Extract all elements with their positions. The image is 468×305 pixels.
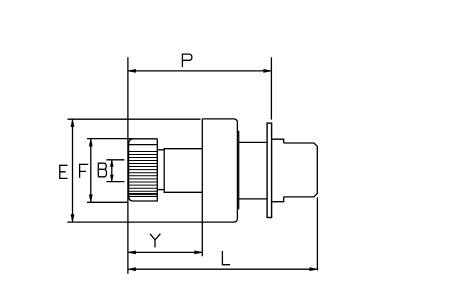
dimension line Y — [128, 251, 202, 253]
end cylinder with chamfered end — [284, 143, 318, 197]
pinion gear teeth hatch — [129, 152, 158, 197]
wire shaft connector top between gear and stop collar — [157, 149, 164, 151]
wire vertical extension line V4 (L right extension at shaft end) — [316, 197, 318, 270]
label L — [222, 251, 230, 265]
arrowhead B bottom — [110, 175, 114, 181]
clutch body inner step edge — [238, 131, 240, 210]
wire shaft connector bottom between gear and stop collar — [157, 189, 164, 191]
dimension line B — [111, 160, 113, 182]
dimension line E — [72, 119, 74, 222]
dimension line L — [128, 268, 318, 270]
arrowhead Y left — [129, 251, 136, 255]
neck cylinder bottom edge — [237, 198, 267, 200]
arrowhead E bottom — [71, 214, 75, 220]
wire vertical extension line V2 (body left edge + Y extension) — [201, 119, 203, 256]
pinion gear outline — [129, 139, 158, 201]
dimension line P — [128, 70, 272, 72]
arrowhead F top — [89, 140, 93, 146]
stop collar rectangle — [164, 149, 202, 193]
arrowhead B top — [110, 161, 114, 167]
label E — [60, 165, 68, 178]
label Y — [150, 234, 160, 248]
arrowhead L left — [129, 267, 136, 271]
collar after flange top — [272, 139, 284, 143]
arrowhead P right — [263, 69, 270, 73]
flange disc — [267, 123, 272, 217]
arrowhead P left — [129, 69, 136, 73]
wire vertical extension line V1 (left face, P/Y/L datum) — [127, 57, 129, 273]
arrowhead E top — [71, 121, 75, 127]
dimension line F — [90, 139, 92, 203]
wire vertical extension line V3 (P right extension at flange face) — [270, 57, 272, 119]
arrowhead F bottom — [89, 195, 93, 201]
wire B bottom extension tick — [106, 181, 124, 183]
label F — [80, 164, 89, 178]
pinion gear tooth root line — [129, 144, 158, 146]
wire F bottom extension tick — [87, 201, 127, 203]
arrowhead L right — [309, 267, 316, 271]
wire E bottom extension tick merging with body bottom edge — [67, 221, 233, 223]
arrowhead Y right — [194, 251, 201, 255]
wire B top extension tick — [106, 159, 124, 161]
wire E top extension tick merging with housing top edge — [68, 118, 201, 120]
collar after flange bottom — [272, 197, 284, 202]
wire F top extension tick — [87, 138, 133, 140]
neck cylinder top edge — [237, 141, 267, 143]
label P — [182, 54, 192, 67]
clutch body outline with rounded right corners — [202, 119, 237, 222]
label B — [98, 163, 106, 177]
